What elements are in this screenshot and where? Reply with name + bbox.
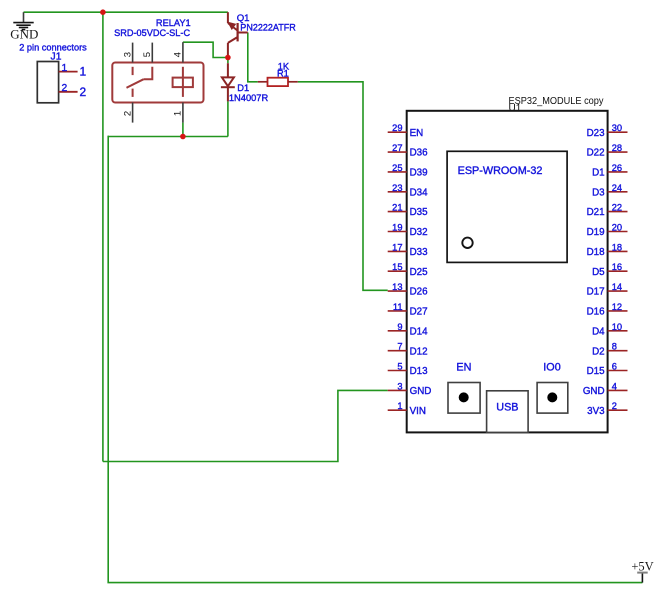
module pin-1 circle xyxy=(462,238,472,248)
J1 pin 1 xyxy=(59,71,78,73)
svg-text:D1: D1 xyxy=(237,83,249,93)
svg-text:D14: D14 xyxy=(410,326,429,337)
svg-text:D12: D12 xyxy=(410,346,428,357)
U1 pin 15 D25 (left) xyxy=(388,270,407,272)
svg-text:D33: D33 xyxy=(410,247,429,258)
svg-text:ESP32_MODULE copy: ESP32_MODULE copy xyxy=(509,96,604,107)
svg-text:D35: D35 xyxy=(410,207,429,218)
svg-text:USB: USB xyxy=(496,402,518,414)
wire: Q1 base to R1 left xyxy=(248,33,258,82)
U1 pin 1 VIN (left) xyxy=(388,409,407,411)
U1 pin 19 D32 (left) xyxy=(388,231,407,233)
U1 pin 6 D15 (right) xyxy=(608,370,628,372)
junction: top rail / left drop xyxy=(100,9,106,15)
U1 pin 24 D3 (right) xyxy=(608,191,628,193)
relay pin 2 stub xyxy=(132,103,134,123)
USB connector xyxy=(487,391,528,433)
svg-text:28: 28 xyxy=(612,143,622,153)
svg-text:D32: D32 xyxy=(410,227,428,238)
connector J1 body xyxy=(37,62,58,103)
svg-text:D36: D36 xyxy=(410,148,429,159)
U1 pin 5 D13 (left) xyxy=(388,370,407,372)
svg-text:5: 5 xyxy=(142,52,153,57)
svg-text:16: 16 xyxy=(612,262,622,272)
svg-text:17: 17 xyxy=(392,242,402,252)
svg-text:GND: GND xyxy=(410,386,432,397)
svg-text:D18: D18 xyxy=(587,247,606,258)
wire: relay pin1 to bottom rail xyxy=(182,123,184,137)
svg-text:1: 1 xyxy=(61,63,67,74)
svg-text:D19: D19 xyxy=(587,227,605,238)
svg-text:30: 30 xyxy=(612,123,622,133)
svg-text:1: 1 xyxy=(80,65,87,79)
svg-text:D25: D25 xyxy=(410,267,429,278)
resistor R1 xyxy=(258,81,268,83)
ESP-WROOM-32 sub-module xyxy=(447,151,567,262)
svg-text:24: 24 xyxy=(612,183,622,193)
junction: Q1 collector / D1 / relay pin4 xyxy=(225,55,231,61)
svg-text:21: 21 xyxy=(392,203,402,213)
U1 pin 18 D18 (right) xyxy=(608,250,628,252)
svg-text:1: 1 xyxy=(397,401,402,411)
svg-text:26: 26 xyxy=(612,163,622,173)
svg-text:D27: D27 xyxy=(410,307,428,318)
J1 pin 2 xyxy=(59,91,78,93)
svg-text:SRD-05VDC-SL-C: SRD-05VDC-SL-C xyxy=(114,28,190,39)
svg-text:25: 25 xyxy=(392,163,402,173)
svg-text:D22: D22 xyxy=(587,148,605,159)
U1 pin 3 GND (left) xyxy=(388,389,407,391)
svg-text:VIN: VIN xyxy=(410,406,426,417)
svg-text:8: 8 xyxy=(612,342,617,352)
U1 pin 12 D16 (right) xyxy=(608,310,628,312)
U1 pin 13 D26 (left) xyxy=(388,290,407,292)
svg-text:IO0: IO0 xyxy=(543,362,560,374)
svg-text:D23: D23 xyxy=(587,128,606,139)
svg-text:2: 2 xyxy=(80,85,87,99)
svg-text:U1: U1 xyxy=(509,103,522,114)
svg-text:14: 14 xyxy=(612,282,622,292)
svg-text:11: 11 xyxy=(393,302,403,312)
svg-text:EN: EN xyxy=(456,362,471,374)
svg-text:D2: D2 xyxy=(592,346,605,357)
svg-text:7: 7 xyxy=(397,342,402,352)
svg-text:D13: D13 xyxy=(410,366,429,377)
U1 pin 22 D21 (right) xyxy=(608,211,628,213)
U1 pin 16 D5 (right) xyxy=(608,270,628,272)
svg-text:D16: D16 xyxy=(587,307,606,318)
svg-text:D15: D15 xyxy=(587,366,606,377)
wire: bottom run to ESP GND pin 3 xyxy=(103,390,388,461)
svg-text:19: 19 xyxy=(392,223,402,233)
U1 pin 17 D33 (left) xyxy=(388,250,407,252)
transistor Q1 xyxy=(227,12,229,23)
U1 pin 30 D23 (right) xyxy=(608,131,628,133)
U1 pin 11 D27 (left) xyxy=(388,310,407,312)
svg-text:12: 12 xyxy=(612,302,622,312)
svg-text:15: 15 xyxy=(392,262,402,272)
svg-text:3V3: 3V3 xyxy=(587,406,605,417)
wire: D1 cathode to bottom rail xyxy=(227,101,229,136)
junction: relay pin1 / bottom rail xyxy=(180,134,186,140)
U1 pin 10 D4 (right) xyxy=(608,330,628,332)
wire: top GND rail xyxy=(24,11,228,13)
svg-text:D1: D1 xyxy=(592,168,605,179)
svg-text:10: 10 xyxy=(612,322,622,332)
U1 pin 25 D39 (left) xyxy=(388,171,407,173)
svg-text:3: 3 xyxy=(122,52,133,57)
relay coil xyxy=(182,67,184,97)
power +5V xyxy=(641,573,643,583)
svg-text:GND: GND xyxy=(583,386,605,397)
ground xyxy=(23,12,25,22)
svg-text:2: 2 xyxy=(122,111,133,116)
U1 pin 2 3V3 (right) xyxy=(608,409,628,411)
U1 pin 29 EN (left) xyxy=(388,131,407,133)
U1 pin 14 D17 (right) xyxy=(608,290,628,292)
svg-text:2: 2 xyxy=(61,83,67,94)
svg-text:1: 1 xyxy=(173,111,184,116)
diode D1 xyxy=(227,63,229,77)
relay RELAY1 body xyxy=(112,63,203,103)
svg-text:22: 22 xyxy=(612,203,622,213)
IC U1 body xyxy=(407,111,608,433)
svg-text:+5V: +5V xyxy=(631,560,653,574)
svg-text:R1: R1 xyxy=(277,69,289,79)
svg-text:1N4007R: 1N4007R xyxy=(229,93,269,103)
U1 pin 27 D36 (left) xyxy=(388,151,407,153)
svg-text:D34: D34 xyxy=(410,187,429,198)
svg-text:D17: D17 xyxy=(587,287,605,298)
svg-text:9: 9 xyxy=(397,322,402,332)
relay pin 3 stub xyxy=(132,43,134,63)
svg-text:D39: D39 xyxy=(410,168,428,179)
wire: junction to D1 anode xyxy=(227,58,229,64)
U1 pin 9 D14 (left) xyxy=(388,330,407,332)
svg-text:D5: D5 xyxy=(592,267,605,278)
svg-text:D26: D26 xyxy=(410,287,429,298)
svg-text:D21: D21 xyxy=(587,207,605,218)
svg-text:3: 3 xyxy=(397,381,402,391)
wire: R1 right to ESP D26 pin 13 xyxy=(298,82,388,290)
U1 pin 26 D1 (right) xyxy=(608,171,628,173)
svg-text:27: 27 xyxy=(392,143,402,153)
wire: +5V run (down and across bottom) xyxy=(108,136,642,583)
svg-text:4: 4 xyxy=(173,52,184,57)
U1 pin 20 D19 (right) xyxy=(608,231,628,233)
svg-text:5: 5 xyxy=(397,362,402,372)
svg-text:PN2222ATFR: PN2222ATFR xyxy=(240,23,296,34)
U1 pin 7 D12 (left) xyxy=(388,350,407,352)
svg-text:GND: GND xyxy=(10,27,38,42)
relay pin 4 stub xyxy=(182,42,184,62)
U1 pin 8 D2 (right) xyxy=(608,350,628,352)
relay switch contact xyxy=(132,67,134,75)
svg-text:13: 13 xyxy=(392,282,402,292)
U1 pin 28 D22 (right) xyxy=(608,151,628,153)
svg-text:20: 20 xyxy=(612,223,622,233)
U1 pin 21 D35 (left) xyxy=(388,211,407,213)
svg-text:D3: D3 xyxy=(592,187,605,198)
svg-text:D4: D4 xyxy=(592,326,605,337)
wire: left vertical from junction down to GND bus xyxy=(102,12,104,461)
svg-text:6: 6 xyxy=(612,362,617,372)
wire: relay bottom rail xyxy=(108,136,228,138)
svg-text:2: 2 xyxy=(612,401,617,411)
relay pin 5 stub xyxy=(151,43,153,63)
svg-text:ESP-WROOM-32: ESP-WROOM-32 xyxy=(458,165,543,177)
relay pin 1 stub xyxy=(182,103,184,123)
svg-text:4: 4 xyxy=(612,381,617,391)
svg-text:23: 23 xyxy=(392,183,402,193)
svg-text:EN: EN xyxy=(410,128,424,139)
svg-text:29: 29 xyxy=(392,123,402,133)
wire: relay pin4 to Q1 collector junction xyxy=(183,42,228,57)
U1 pin 23 D34 (left) xyxy=(388,191,407,193)
svg-text:18: 18 xyxy=(612,242,622,252)
U1 pin 4 GND (right) xyxy=(608,389,628,391)
